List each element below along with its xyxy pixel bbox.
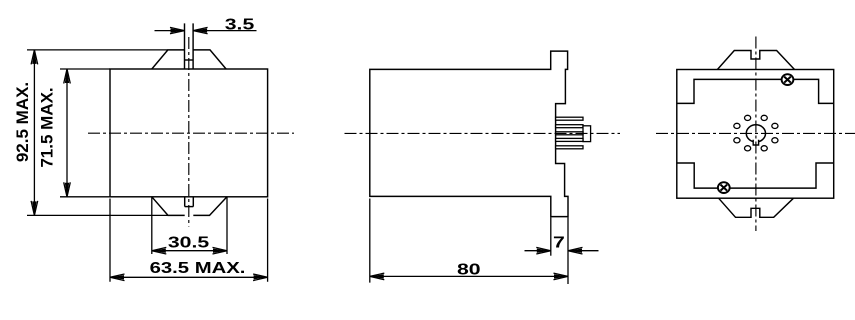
back view top mounting tab with notch: [717, 51, 794, 70]
dimension 63.5 MAX. right arrowhead: [253, 274, 268, 281]
dimension 71.5 MAX. label: [37, 87, 56, 167]
dimension 71.5 MAX. extension lines: [60, 69, 110, 197]
connector pin 5: [556, 146, 583, 149]
front view top latch slot walls: [185, 23, 194, 69]
dimension 92.5 MAX. bottom arrowhead: [31, 201, 38, 216]
dimension 71.5 MAX. top arrowhead: [64, 69, 71, 84]
dimension 3.5 right arrowhead: [193, 27, 208, 33]
connector pin 1: [556, 117, 583, 120]
socket pin hole 4 (upper right): [772, 123, 778, 128]
dimension 63.5 MAX. extension lines: [110, 199, 268, 282]
socket pin hole 2 (top right): [761, 115, 767, 120]
svg-text:71.5 MAX.: 71.5 MAX.: [37, 87, 56, 167]
front view bottom notch cross line: [185, 206, 194, 208]
dimension 92.5 MAX. label: [13, 82, 32, 162]
dimension 92.5 MAX. extension lines: [27, 50, 168, 216]
socket pin hole 3 (upper left): [734, 123, 740, 128]
side view body outline with tabs and connector recess: [370, 51, 568, 217]
dimension 3.5 left arrowhead: [170, 27, 185, 33]
back view inner recess bottom contour: [677, 163, 834, 188]
connector pin 2: [556, 125, 583, 128]
dimension 63.5 MAX. dimension line: [110, 276, 268, 278]
dimension 71.5 MAX. bottom arrowhead: [64, 182, 71, 197]
socket pin hole 7 (bottom left): [745, 146, 751, 151]
back view horizontal centerline: [656, 132, 855, 134]
front view top mounting tab (trapezoid): [152, 50, 226, 69]
dimension 3.5 label: [225, 15, 255, 33]
dimension 92.5 MAX. dimension line: [33, 50, 35, 216]
dimension 30.5 extension lines: [152, 197, 227, 254]
front view body outline: [110, 69, 268, 197]
socket pin hole 6 (lower right): [772, 138, 778, 143]
dimension 30.5 left arrowhead: [152, 247, 167, 254]
svg-text:30.5: 30.5: [168, 233, 209, 251]
back view bottom tab with notch: [719, 198, 794, 217]
dimension 30.5 dimension line: [152, 250, 227, 252]
dimension 30.5 label: [168, 233, 209, 251]
connector pin 4: [556, 138, 583, 141]
dimension 7 left arrowhead: [536, 247, 551, 254]
socket pin hole 5 (lower left): [734, 138, 740, 143]
dimension 7 right arrowhead: [568, 247, 583, 254]
connector key box: [583, 126, 591, 142]
back view vertical centerline: [755, 37, 757, 232]
screw top right: [782, 74, 794, 85]
dimension 80 label: [457, 260, 481, 278]
dimension 3.5 leader lines: [155, 30, 257, 32]
front view top latch cross line: [185, 59, 194, 61]
socket pin hole 1 (top left): [745, 115, 751, 120]
dimension 71.5 MAX. dimension line: [66, 69, 68, 197]
dimension 30.5 right arrowhead: [213, 247, 228, 254]
socket pin hole 8 (bottom right): [761, 146, 767, 151]
dimension 80 right arrowhead: [554, 273, 569, 280]
dimension 80 extension lines: [370, 199, 568, 285]
dimension 80 dimension line: [370, 275, 568, 277]
dimension 7 extension line: [550, 217, 552, 255]
svg-text:80: 80: [457, 260, 481, 278]
front view horizontal centerline: [88, 132, 294, 134]
dimension 7 leader lines: [525, 250, 599, 252]
dimension 63.5 MAX. label: [150, 259, 246, 276]
connector pin 3: [556, 132, 583, 135]
svg-text:7: 7: [553, 233, 565, 251]
screw bottom left: [718, 182, 730, 193]
front view bottom notch walls: [185, 197, 194, 207]
dimension 63.5 MAX. left arrowhead: [110, 274, 125, 281]
back view body outline: [677, 70, 834, 199]
back view inner recess top contour: [677, 79, 834, 103]
front view bottom tab (inverted trapezoid): [152, 197, 227, 216]
svg-text:92.5 MAX.: 92.5 MAX.: [13, 82, 32, 162]
center key hole: [746, 125, 765, 145]
svg-text:63.5 MAX.: 63.5 MAX.: [150, 259, 246, 276]
front view vertical centerline: [188, 37, 190, 227]
svg-text:3.5: 3.5: [225, 15, 255, 33]
dimension 92.5 MAX. top arrowhead: [31, 50, 38, 65]
dimension 7 label: [553, 233, 565, 251]
side view horizontal centerline: [345, 132, 621, 134]
dimension 80 left arrowhead: [370, 273, 385, 280]
